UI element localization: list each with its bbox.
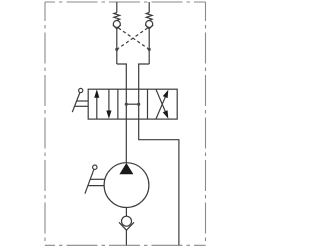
DV left position: down arrow [108,89,110,111]
DV lever knob [79,88,83,92]
wire: V1 down to valve port A [117,64,127,89]
DV lever arm [72,93,80,113]
check valve V1 seat [113,25,121,29]
wire: T line valve to bottom border [139,119,179,245]
junction dot centre-left [125,103,128,106]
check valve V2 ball [146,21,153,28]
pump lever links [90,178,105,180]
DV right position: crossed arrows [156,96,166,119]
pump P1 flow triangle [119,163,133,174]
pump P1 circle [104,163,149,208]
wire: V2 down to valve port B [139,64,150,89]
wire: V3 to bottom border [125,230,127,245]
junction dot A on V1 line [115,48,118,51]
wire: port line from top border to check valve V2 [148,2,150,13]
pump lever knob [93,165,97,169]
junction dot centre-right [137,103,140,106]
check valve V3 ball [122,216,132,226]
check valve V1 ball [113,21,120,28]
spring of pilot-operated check valve V2 [146,13,152,21]
pilot line from V2 to junction A (dashed) [117,28,148,50]
enclosure boundary (dash-dot frame) [45,2,206,245]
DV centre position: through lines with bridge [125,89,127,119]
check valve V2 seat [145,25,153,29]
pilot line from V1 to junction B (dashed) [118,28,149,50]
spring of pilot-operated check valve V1 [114,13,120,21]
wire: pump to check valve V3 [125,208,127,217]
check valve V3 seat [119,222,134,230]
wire: port line from top border to check valve V1 [116,2,118,13]
DV left position: up arrow [96,97,98,119]
DV lever links [76,100,88,102]
wire: P line valve to pump [125,119,127,163]
directional valve DV body [88,89,177,119]
pump lever arm [85,169,94,193]
wire: V1 to junction A [116,29,118,64]
junction dot B on V2 line [148,48,151,51]
wire: V2 to junction B [148,29,150,64]
